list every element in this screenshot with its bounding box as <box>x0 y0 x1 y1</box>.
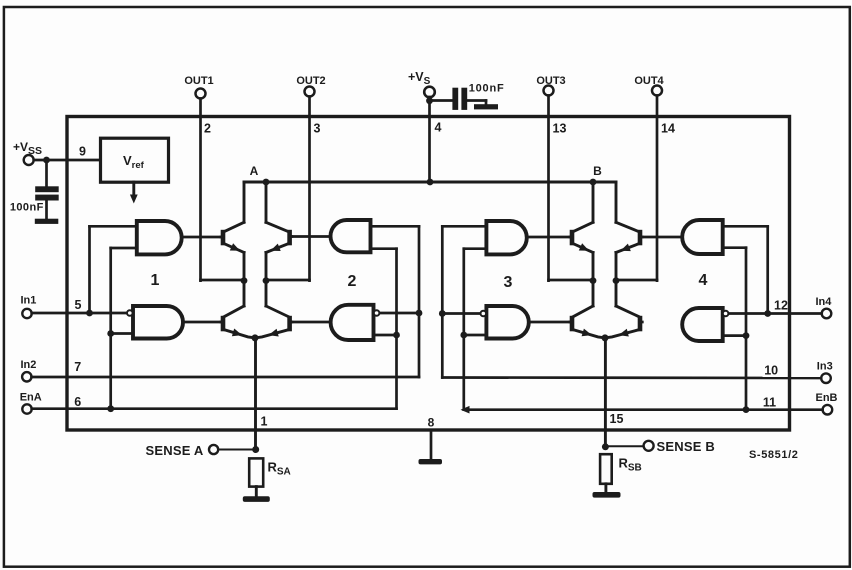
svg-text:12: 12 <box>774 299 788 313</box>
svg-text:OUT2: OUT2 <box>296 75 325 87</box>
svg-text:2: 2 <box>348 273 357 290</box>
svg-text:6: 6 <box>74 395 81 409</box>
svg-text:In4: In4 <box>816 296 833 308</box>
svg-text:EnB: EnB <box>816 392 838 404</box>
svg-text:In1: In1 <box>21 295 37 307</box>
svg-text:In3: In3 <box>817 361 833 373</box>
svg-text:4: 4 <box>435 121 442 135</box>
svg-text:2: 2 <box>204 122 211 136</box>
svg-text:100nF: 100nF <box>469 83 505 95</box>
svg-text:1: 1 <box>261 415 268 429</box>
svg-text:S-5851/2: S-5851/2 <box>749 449 798 461</box>
svg-text:14: 14 <box>661 122 675 136</box>
svg-text:7: 7 <box>74 360 81 374</box>
svg-text:8: 8 <box>428 415 435 429</box>
svg-text:B: B <box>593 164 602 178</box>
svg-text:SENSE A: SENSE A <box>146 443 204 458</box>
svg-text:10: 10 <box>764 364 778 378</box>
svg-text:OUT1: OUT1 <box>184 75 213 87</box>
svg-text:5: 5 <box>75 298 82 312</box>
svg-text:15: 15 <box>610 412 624 426</box>
svg-text:13: 13 <box>553 122 567 136</box>
svg-text:1: 1 <box>151 272 160 289</box>
svg-text:A: A <box>250 164 259 178</box>
svg-text:3: 3 <box>314 122 321 136</box>
svg-text:11: 11 <box>763 395 776 409</box>
svg-text:100nF: 100nF <box>10 202 44 214</box>
svg-text:SENSE B: SENSE B <box>657 439 715 454</box>
svg-text:4: 4 <box>699 272 708 289</box>
svg-text:9: 9 <box>79 145 86 159</box>
svg-text:EnA: EnA <box>20 392 42 404</box>
svg-text:In2: In2 <box>21 359 37 371</box>
svg-text:3: 3 <box>504 274 513 291</box>
